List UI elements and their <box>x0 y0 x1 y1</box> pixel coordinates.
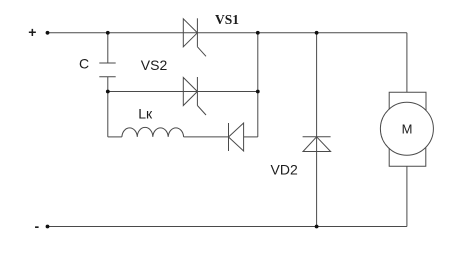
svg-text:M: M <box>402 122 413 137</box>
node bottom VD2 junction <box>315 225 319 229</box>
wire VD2 branch <box>316 33 318 227</box>
node top VS1 junction <box>256 31 260 35</box>
wire right drop to motor <box>406 33 408 93</box>
diode VD2 <box>303 137 331 152</box>
wire inductor line left stub <box>108 136 122 138</box>
wire VS2 line <box>108 91 258 93</box>
node top C junction <box>106 31 110 35</box>
svg-text:C: C <box>79 56 89 72</box>
node top VD2 junction <box>315 31 319 35</box>
svg-text:+: + <box>28 24 36 40</box>
svg-text:VS1: VS1 <box>215 12 239 27</box>
wire diode to right riser <box>244 136 258 138</box>
wire capacitor to VS2 node <box>107 77 109 92</box>
wire right riser <box>257 33 259 137</box>
node plus terminal <box>46 31 50 35</box>
node minus terminal <box>46 225 50 229</box>
wire bottom bus <box>48 226 407 228</box>
node C VS2 junction <box>106 90 110 94</box>
svg-text:Lк: Lк <box>138 105 153 121</box>
motor M <box>380 92 433 166</box>
svg-text:-: - <box>34 218 39 234</box>
wire left drop to inductor <box>107 92 109 137</box>
wire top node to capacitor <box>107 33 109 63</box>
svg-text:VS2: VS2 <box>141 57 168 73</box>
node VS2 right junction <box>256 90 260 94</box>
svg-text:VD2: VD2 <box>271 161 298 177</box>
wire top bus <box>48 32 407 34</box>
wire inductor to diode <box>184 136 229 138</box>
capacitor C <box>99 63 115 77</box>
thyristor VS2 <box>183 77 206 115</box>
inductor Lk <box>122 127 184 137</box>
thyristor VS1 <box>183 18 206 56</box>
diode VD1 reverse <box>229 123 244 151</box>
wire motor to bottom bus <box>406 166 408 226</box>
